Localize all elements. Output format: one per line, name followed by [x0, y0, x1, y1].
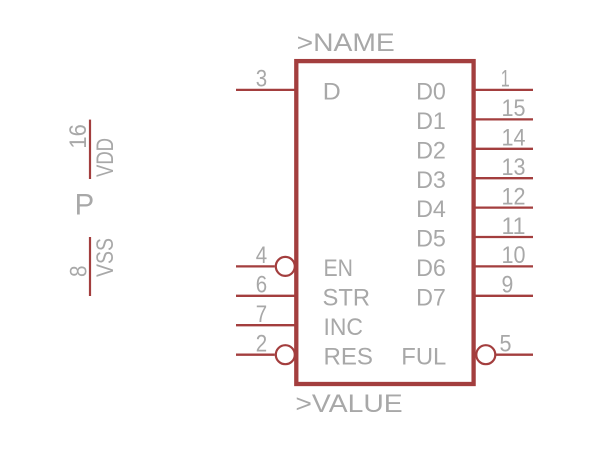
svg-text:5: 5: [500, 330, 512, 357]
pin RES (pin 2) wire: [236, 354, 275, 356]
svg-text:D0: D0: [416, 79, 446, 106]
pin D0 (pin 1) wire: [476, 89, 534, 91]
svg-text:FUL: FUL: [401, 343, 446, 370]
IC body U1: [296, 61, 473, 384]
svg-text:VSS: VSS: [92, 238, 119, 277]
svg-text:6: 6: [256, 271, 267, 298]
pin D6 (pin 10) wire: [476, 265, 534, 267]
svg-text:D3: D3: [416, 167, 446, 194]
svg-text:15: 15: [502, 95, 526, 122]
inversion bubble FUL: [476, 345, 495, 364]
svg-text:D6: D6: [416, 255, 446, 282]
svg-text:>VALUE: >VALUE: [295, 390, 402, 418]
pin D2 (pin 14) wire: [476, 148, 534, 150]
svg-text:D5: D5: [416, 226, 446, 253]
svg-text:D7: D7: [416, 285, 446, 312]
svg-text:P: P: [75, 189, 95, 222]
svg-text:14: 14: [502, 125, 526, 152]
svg-text:RES: RES: [324, 343, 374, 370]
svg-text:1: 1: [501, 66, 510, 93]
pin D5 (pin 11) wire: [476, 236, 534, 238]
pin EN (pin 4) wire: [236, 265, 275, 267]
svg-text:>NAME: >NAME: [297, 29, 395, 57]
svg-text:STR: STR: [323, 284, 371, 311]
svg-text:2: 2: [256, 330, 267, 357]
pin D (pin 3) wire: [236, 89, 296, 91]
svg-text:8: 8: [66, 266, 93, 278]
svg-text:INC: INC: [324, 314, 364, 341]
pin D7 (pin 9) wire: [476, 295, 534, 297]
svg-text:9: 9: [502, 271, 514, 298]
svg-text:10: 10: [502, 242, 526, 269]
pin INC (pin 7) wire: [236, 324, 296, 326]
pin STR (pin 6) wire: [236, 295, 296, 297]
pin VDD (pin 16) vertical wire: [89, 120, 91, 179]
svg-text:12: 12: [502, 183, 526, 210]
svg-text:13: 13: [502, 154, 526, 181]
inversion bubble RES: [276, 345, 295, 364]
svg-text:4: 4: [256, 242, 267, 269]
svg-text:11: 11: [502, 213, 526, 240]
pin D4 (pin 12) wire: [476, 206, 534, 208]
svg-text:D1: D1: [416, 108, 446, 135]
svg-text:3: 3: [256, 66, 267, 93]
pin FUL (pin 5) wire: [495, 354, 533, 356]
inversion bubble EN: [276, 257, 295, 276]
svg-text:16: 16: [65, 124, 92, 149]
pin D3 (pin 13) wire: [476, 177, 534, 179]
svg-text:EN: EN: [324, 255, 354, 282]
svg-text:D4: D4: [416, 196, 446, 223]
svg-text:D: D: [323, 79, 341, 106]
svg-text:D2: D2: [416, 137, 446, 164]
svg-text:VDD: VDD: [92, 138, 119, 177]
pin VSS (pin 8) vertical wire: [89, 237, 91, 296]
pin D1 (pin 15) wire: [476, 118, 534, 120]
svg-text:7: 7: [256, 301, 267, 328]
